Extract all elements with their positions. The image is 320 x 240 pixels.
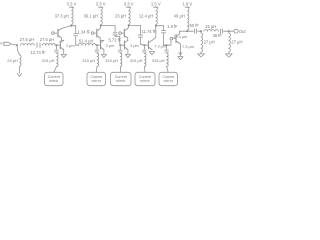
- bias chain stage4: [143, 45, 145, 49]
- svg-text:3.3 V: 3.3 V: [67, 1, 77, 6]
- capacitor C1 1.34fF: [74, 33, 78, 35]
- svg-text:Current: Current: [162, 75, 174, 79]
- svg-text:315 μH: 315 μH: [82, 58, 95, 63]
- wire rail b: [187, 30, 193, 32]
- inductor Ld4 12.4 μH: [156, 7, 158, 24]
- wire Q4 emitter: [151, 49, 153, 51]
- port In: [4, 42, 11, 45]
- svg-text:mirror: mirror: [92, 79, 102, 83]
- wire Q2 emitter: [103, 50, 105, 54]
- svg-text:3.3 V: 3.3 V: [124, 1, 134, 6]
- port Out: [234, 29, 238, 33]
- svg-text:23 μH: 23 μH: [115, 14, 126, 19]
- wire gate5 riser: [170, 40, 172, 45]
- bias circle Q1c: [52, 32, 55, 35]
- wire output rail a: [179, 30, 187, 32]
- current source arrow: [17, 73, 22, 76]
- svg-text:315 μH: 315 μH: [105, 58, 118, 63]
- ground shunt1: [198, 54, 205, 57]
- bias circle Q3c: [119, 32, 122, 35]
- node gate3: [119, 44, 121, 46]
- svg-text:1.9 fF: 1.9 fF: [167, 24, 178, 29]
- svg-text:Current: Current: [48, 75, 60, 79]
- node drain2: [100, 25, 102, 27]
- transistor Q3 lower: [124, 41, 126, 49]
- transistor Q3c upper cascode: [123, 29, 125, 37]
- current mirror box 5: [159, 72, 178, 85]
- bias chain stage2: [96, 45, 98, 49]
- bias circle Q2c: [91, 32, 94, 35]
- capacitor C4 1.9fF: [162, 30, 166, 32]
- node gate2: [96, 44, 98, 46]
- svg-text:27 μH: 27 μH: [204, 39, 215, 44]
- node shunt2: [228, 30, 230, 32]
- svg-text:12.4 μH: 12.4 μH: [139, 14, 153, 19]
- wire Q5 collector to rail: [178, 31, 180, 34]
- svg-text:36.1 μH: 36.1 μH: [84, 14, 98, 19]
- wire drain1 to cap: [72, 25, 76, 27]
- node gate4: [144, 44, 146, 46]
- ground Q3 emitter: [125, 54, 130, 57]
- svg-text:27.6 μH: 27.6 μH: [20, 37, 34, 42]
- inductor L12 51.4uH: [79, 44, 97, 46]
- ground Q1 emitter: [61, 54, 66, 57]
- capacitor C3 11.74fF: [138, 34, 142, 36]
- svg-text:Current: Current: [115, 75, 127, 79]
- capacitor C2 5.72fF: [113, 32, 117, 34]
- ground shunt2: [225, 54, 232, 57]
- svg-text:Current: Current: [139, 75, 151, 79]
- svg-text:27.6 μH: 27.6 μH: [40, 37, 54, 42]
- transistor Q5: [175, 35, 177, 43]
- wire Q3 emitter: [127, 50, 129, 54]
- svg-text:315 μH: 315 μH: [152, 58, 165, 63]
- inductor Lg2 27.6uH: [42, 44, 55, 46]
- svg-text:mirror: mirror: [49, 79, 59, 83]
- ground Q2 emitter: [101, 54, 106, 57]
- current mirror box 1: [45, 72, 64, 85]
- svg-text:51.4 μH: 51.4 μH: [79, 39, 93, 44]
- transistor Q4: [148, 41, 150, 49]
- capacitor C6 38fF: [220, 29, 222, 33]
- node gate5: [166, 44, 168, 46]
- svg-text:24 μH: 24 μH: [7, 58, 18, 63]
- capacitor C5 50fF: [194, 29, 196, 33]
- wire input branch down: [16, 45, 19, 50]
- svg-text:3.3 V: 3.3 V: [96, 1, 106, 6]
- node input junction: [16, 44, 18, 46]
- supply 3.3 V node 1: [69, 6, 73, 8]
- svg-text:12.4 μm: 12.4 μm: [173, 35, 187, 39]
- supply 3.3 V node 2: [99, 6, 103, 8]
- bias chain stage5: [166, 45, 168, 49]
- wire Q5 emitter: [177, 42, 180, 44]
- supply 1.5 V node 4: [154, 6, 158, 8]
- svg-text:38 fF: 38 fF: [213, 33, 223, 38]
- current mirror box 4: [135, 72, 155, 85]
- shunt inductor 27uH #2: [228, 31, 230, 33]
- bias chain stage1: cap + inductor 315uH: [56, 45, 58, 49]
- transistor Q1c upper cascode: [57, 29, 59, 37]
- svg-text:49 μH: 49 μH: [174, 14, 185, 19]
- svg-text:mirror: mirror: [140, 79, 150, 83]
- svg-text:7.3 μm: 7.3 μm: [182, 45, 194, 49]
- node rail supply: [186, 30, 188, 32]
- svg-text:37.3 μH: 37.3 μH: [55, 14, 69, 19]
- svg-text:315 μH: 315 μH: [130, 58, 143, 63]
- inductor Ld1 37.3 μH: [72, 7, 74, 24]
- wire cap1 down: [75, 37, 77, 46]
- svg-text:1.8 V: 1.8 V: [182, 1, 192, 6]
- supply 3.3 V node 3: [126, 6, 130, 8]
- svg-text:50 fF: 50 fF: [190, 23, 200, 28]
- svg-text:315 μH: 315 μH: [42, 58, 55, 63]
- wire cascode join stage1: [60, 38, 62, 41]
- svg-text:1.34 fF: 1.34 fF: [78, 30, 91, 35]
- wire to arrow: [19, 67, 21, 74]
- node gate1: [56, 44, 58, 46]
- wire cap3 down: [140, 38, 142, 45]
- svg-text:12.74 fF: 12.74 fF: [31, 50, 47, 55]
- capacitor C_series 12.74fF: [36, 43, 38, 48]
- inductor Ld2 36.1 μH: [101, 7, 103, 24]
- wire cap2 down: [114, 34, 116, 37]
- svg-text:1.5 V: 1.5 V: [151, 1, 161, 6]
- transistor Q2c upper cascode: [96, 29, 98, 37]
- wire rail d: [224, 30, 229, 32]
- node drain3: [128, 25, 130, 27]
- supply 1.8 V node 5: [185, 6, 189, 8]
- wire cap4 down: [163, 33, 165, 45]
- svg-text:2 μm: 2 μm: [66, 44, 75, 48]
- transistor Q2 lower: [100, 41, 102, 49]
- wire Q2c collector to supply: [99, 27, 102, 29]
- bias chain stage3: [119, 45, 121, 49]
- wire drain4 to cap4: [156, 25, 164, 27]
- wire Q4 collector to supply: [152, 38, 156, 41]
- node drain1: [71, 25, 73, 27]
- current mirror box 3: [111, 72, 132, 85]
- svg-text:mirror: mirror: [164, 79, 174, 83]
- svg-text:mirror: mirror: [116, 79, 126, 83]
- current mirror box 2: [87, 72, 106, 85]
- svg-text:Out: Out: [239, 29, 246, 34]
- svg-text:11.74 fF: 11.74 fF: [142, 29, 157, 34]
- inductor Lg1 27.6uH: [21, 44, 35, 46]
- bias circle Q5: [170, 37, 173, 40]
- shunt inductor 27uH #1: [200, 31, 202, 33]
- svg-text:15 μH: 15 μH: [205, 24, 216, 29]
- svg-text:3 μm: 3 μm: [130, 44, 139, 48]
- transistor Q1 lower: [59, 41, 61, 49]
- wire cascode join stage2: [99, 38, 101, 41]
- ground Q4 emitter: [149, 52, 154, 55]
- wire to out port: [229, 30, 234, 32]
- ground Q5 emitter: [178, 57, 183, 60]
- node shunt1: [200, 30, 202, 32]
- inductor Ld3 23 μH: [129, 7, 131, 24]
- node drain4: [155, 25, 157, 27]
- svg-text:27 μH: 27 μH: [231, 39, 242, 44]
- svg-text:In: In: [0, 42, 3, 46]
- wire cascode join stage3: [127, 38, 129, 41]
- svg-text:2 μm: 2 μm: [106, 44, 115, 48]
- wire rail c: [198, 30, 201, 32]
- wire Q1c collector to supply: [61, 26, 70, 29]
- wire drain3 to cap3: [129, 25, 141, 27]
- svg-text:Current: Current: [90, 75, 102, 79]
- wire input: [11, 44, 17, 45]
- wire drain2 to cap2: [101, 25, 115, 27]
- wire Q1 emitter: [63, 50, 65, 54]
- inductor Ld5 49 μH: [187, 7, 189, 30]
- wire Q3c collector to supply: [127, 27, 130, 29]
- inductor L_bias_in 24uH: [20, 55, 22, 67]
- inductor Lout 15uH: [204, 30, 219, 32]
